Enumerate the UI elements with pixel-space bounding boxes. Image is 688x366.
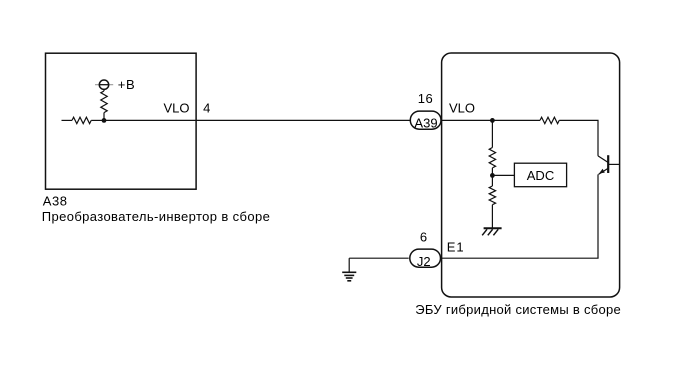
wire J2 to ground <box>349 257 409 259</box>
svg-text:6: 6 <box>420 230 427 245</box>
chassis ground <box>484 227 502 229</box>
svg-text:A38: A38 <box>43 194 68 209</box>
wire to ADC node <box>491 168 493 176</box>
junction node VLO <box>490 118 495 123</box>
resistor horizontal inside A38 <box>72 117 91 123</box>
wire VLO main from A38 to A39 connector <box>104 119 411 121</box>
wire resistor to node <box>103 113 105 121</box>
svg-text:16: 16 <box>418 91 433 106</box>
gray line through +B terminal <box>95 84 113 86</box>
wire emitter down to E1 line <box>597 174 599 258</box>
box A38 (converter-inverter assembly outline) <box>46 53 197 189</box>
svg-text:Преобразователь-инвертор в сбо: Преобразователь-инвертор в сборе <box>42 209 270 224</box>
box ECU (hybrid system ECU outline) <box>442 53 620 297</box>
svg-text:4: 4 <box>203 101 210 116</box>
transistor emitter arrow <box>599 169 605 174</box>
transistor base bar <box>607 155 609 173</box>
transistor emitter diagonal <box>599 168 609 174</box>
wire E1 from J2 to transistor <box>430 257 599 259</box>
svg-text:J2: J2 <box>417 254 431 269</box>
wire stub left of resistor inside A38 <box>62 119 73 121</box>
transistor Q (NPN) collector diagonal <box>598 156 608 163</box>
wire resistor to corner and down to transistor collector <box>559 120 598 155</box>
junction node inside A38 <box>102 118 107 123</box>
resistor vertical inside A38 <box>101 91 107 113</box>
svg-text:+B: +B <box>118 77 135 92</box>
connector A39 <box>410 111 441 129</box>
ground earth <box>342 271 356 273</box>
svg-text:ADC: ADC <box>527 168 554 183</box>
resistor upper vertical in ECU <box>489 148 495 168</box>
terminal circle +B <box>99 80 108 89</box>
wire from resistor to node <box>91 119 104 121</box>
wire lower resistor to chassis ground <box>491 205 493 229</box>
svg-text:VLO: VLO <box>449 101 475 116</box>
connector J2 <box>410 249 441 267</box>
resistor lower vertical in ECU <box>489 186 495 205</box>
svg-text:ЭБУ гибридной системы в сборе: ЭБУ гибридной системы в сборе <box>415 302 621 317</box>
svg-text:A39: A39 <box>414 115 437 130</box>
wire circle to resistor <box>103 89 105 91</box>
svg-text:E1: E1 <box>447 240 465 255</box>
wire junction to resistor top <box>491 120 493 147</box>
junction node ADC <box>490 173 495 178</box>
svg-text:VLO: VLO <box>163 101 189 116</box>
wire junction to top resistor <box>492 119 540 121</box>
ADC box <box>514 163 566 187</box>
wire node to ADC box <box>492 174 514 176</box>
resistor horizontal top in ECU <box>540 117 559 123</box>
transistor base lead to box edge <box>608 163 619 165</box>
wire from A39 to junction <box>430 119 492 121</box>
wire node to lower resistor <box>491 175 493 186</box>
